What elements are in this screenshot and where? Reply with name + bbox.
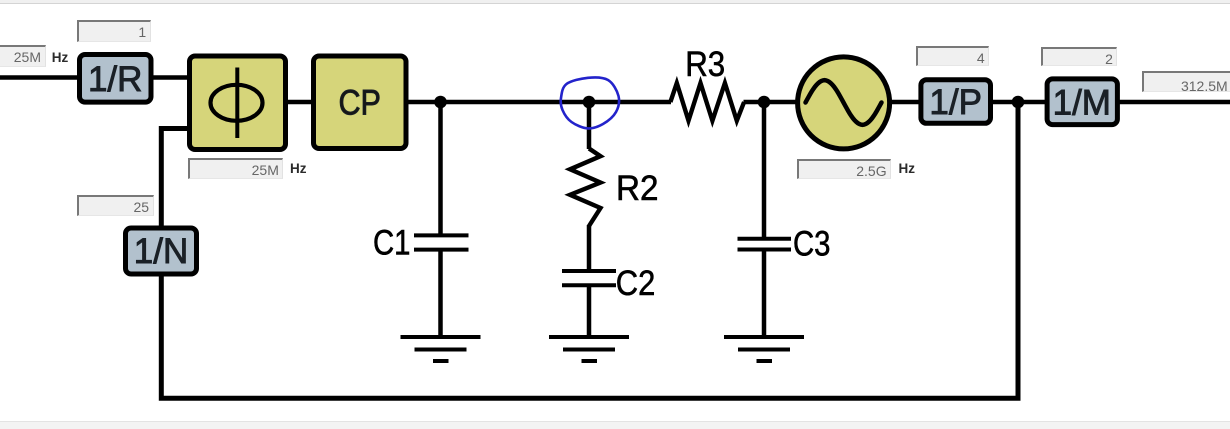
- svg-text:1/R: 1/R: [88, 60, 142, 99]
- svg-text:C2: C2: [616, 264, 656, 303]
- svg-text:R3: R3: [685, 45, 725, 84]
- svg-text:1/N: 1/N: [134, 232, 188, 271]
- svg-text:R2: R2: [616, 169, 659, 208]
- svg-text:1/M: 1/M: [1053, 84, 1111, 123]
- svg-text:C3: C3: [793, 225, 831, 264]
- svg-text:CP: CP: [338, 84, 381, 123]
- svg-text:1/P: 1/P: [929, 83, 982, 122]
- svg-text:C1: C1: [373, 224, 411, 263]
